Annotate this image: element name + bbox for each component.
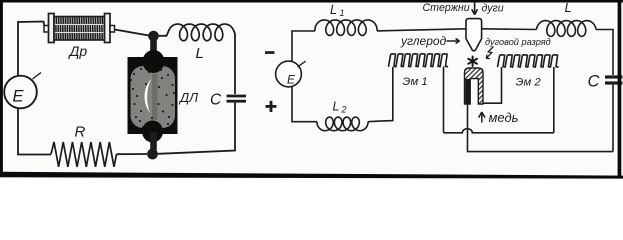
- wire: E bottom down to L2: [292, 87, 317, 122]
- junction node: lamp bottom: [147, 149, 158, 160]
- wire: choke to top junction: [115, 30, 150, 36]
- wire: copper electrode down through hop to bottom rail: [468, 104, 614, 152]
- resistor R: [51, 142, 117, 167]
- svg-text:углерод: углерод: [400, 34, 447, 48]
- svg-text:Эм 2: Эм 2: [516, 77, 542, 89]
- wire: Em2 left lead down and to copper electrode: [483, 67, 502, 103]
- svg-text:E: E: [13, 88, 25, 106]
- capacitor C (left): [227, 95, 247, 98]
- label copper (med) with up arrow: [479, 112, 485, 123]
- junction node: lamp top: [148, 31, 159, 42]
- wire: L to right rail down to capacitor: [234, 31, 235, 94]
- lightning arrow to arc: [486, 47, 493, 59]
- wire: top junction to inductor L: [159, 29, 170, 36]
- svg-text:дуги: дуги: [482, 3, 504, 15]
- inductor L2 (loops below line): [317, 117, 368, 131]
- inductor L (right circuit top): [482, 28, 537, 31]
- svg-text:медь: медь: [489, 110, 519, 125]
- wire: E top up and to L1: [292, 31, 315, 61]
- wire: Em1 right lead down: [443, 67, 445, 133]
- choke Dr: left terminal nub: [44, 26, 50, 33]
- wire: left circuit, E top to choke: [18, 22, 45, 77]
- svg-text:ДЛ: ДЛ: [178, 90, 198, 105]
- svg-text:дуговой разряд: дуговой разряд: [485, 37, 551, 47]
- wire: L to right rail down to capacitor: [596, 30, 613, 76]
- electromagnet Em1 coil: [389, 54, 397, 67]
- copper electrode (hatched cup): [465, 68, 484, 104]
- svg-text:L: L: [330, 3, 337, 17]
- wire: lamp bottom stub: [150, 132, 157, 150]
- svg-text:2: 2: [341, 105, 347, 115]
- svg-text:C: C: [210, 92, 222, 109]
- capacitor C (right): [605, 75, 623, 78]
- wire: link Em1 to Em2 with hop over copper lead: [444, 129, 554, 133]
- inductor L (left circuit): [170, 24, 235, 41]
- choke Dr: right terminal nub: [110, 26, 115, 33]
- wire: capacitor to bottom rail: [612, 85, 614, 152]
- wire: lamp bottom node to resistor: [117, 153, 148, 155]
- svg-text:Стержни: Стержни: [423, 2, 470, 14]
- svg-text:E: E: [287, 73, 296, 87]
- svg-text:C: C: [588, 73, 600, 91]
- svg-text:Др: Др: [68, 43, 88, 59]
- source E (left battery/generator): [33, 73, 42, 80]
- wire: capacitor down, bottom rail to lamp bottom node: [158, 103, 235, 154]
- arc spark asterisk: [468, 57, 477, 67]
- carbon electrode (rod): [466, 19, 482, 51]
- wire: L2 right end up to Em1 left lead: [368, 67, 393, 122]
- electromagnet Em2 coil: [498, 55, 506, 67]
- choke Dr: winding body: [54, 17, 105, 41]
- choke Dr: left flange: [49, 14, 55, 43]
- label plus (right source polarity): [266, 105, 277, 108]
- choke Dr: right flange: [105, 14, 111, 43]
- wire: L1 to carbon electrode: [377, 29, 466, 31]
- wire: Em2 right lead down to link wire: [553, 67, 555, 133]
- source E (right circuit): [276, 61, 302, 87]
- svg-text:Эм 1: Эм 1: [403, 76, 428, 88]
- svg-text:L: L: [196, 45, 204, 62]
- svg-text:L: L: [333, 100, 340, 114]
- svg-text:1: 1: [340, 8, 345, 18]
- inductor L1: [315, 20, 377, 35]
- arrow down (points to carbon rod): [472, 2, 478, 15]
- svg-text:R: R: [75, 124, 86, 141]
- arc lamp DL (body): [128, 50, 178, 143]
- wire: resistor to E bottom: [18, 109, 51, 155]
- label minus (right source polarity): [265, 51, 275, 54]
- wire: lamp top stub: [150, 38, 157, 58]
